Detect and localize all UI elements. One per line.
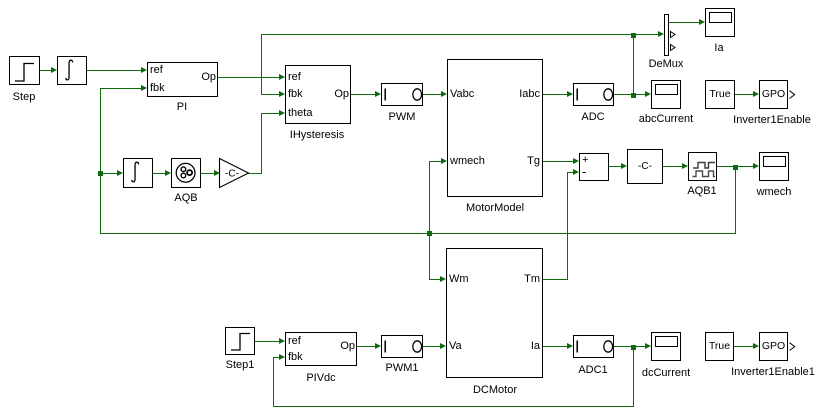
port label ref (PI) <box>150 64 163 77</box>
source block Step1 <box>225 327 255 355</box>
wire IHysteresis Op to PWM <box>351 94 376 95</box>
label wmech <box>757 186 792 199</box>
wire arrowhead into AQB <box>165 170 171 176</box>
wire arrowhead into PI ref <box>141 67 147 73</box>
driver block GPO1 <box>759 332 788 361</box>
wire arrowhead into Integrator1 <box>117 170 123 176</box>
wire speed feedback vertical x=100 <box>100 88 101 234</box>
driver block AQB1 <box>688 152 717 181</box>
wire Gain to theta corner <box>248 173 262 174</box>
port label Vabc (MotorModel) <box>450 88 474 101</box>
wire wmech to DCMotor Wm <box>429 279 441 280</box>
port label wmech (MotorModel) <box>450 155 485 168</box>
wire arrowhead into PWM1 <box>375 343 381 349</box>
sensor block AQB <box>171 158 201 188</box>
GPO output port chevron <box>789 90 796 100</box>
driver block PWM <box>381 83 423 106</box>
wire dc feedback rail y=406 <box>273 406 634 407</box>
wire arrowhead into AQB1 <box>682 163 688 169</box>
wire Integrator to PI ref <box>87 70 143 71</box>
driver block ADC1 <box>573 335 614 358</box>
port label Iabc (MotorModel) <box>519 88 540 101</box>
GPO1 output port chevron <box>789 342 796 352</box>
port label ref (PIVdc) <box>288 335 301 348</box>
wire arrowhead into dcCurrent <box>645 343 651 349</box>
scope wmech <box>759 152 789 181</box>
wire arrowhead into ADC1 <box>567 343 573 349</box>
port label fbk (IHysteresis) <box>288 88 303 101</box>
wire arrowhead into IHysteresis theta <box>279 110 285 116</box>
DeMux unconnected output port 3 <box>670 44 676 51</box>
wire AQB to Gain <box>201 173 215 174</box>
wire DCMotor Ia to ADC1 <box>543 346 568 347</box>
wire top current rail y=34 <box>261 34 633 35</box>
wire dc feedback vertical x=633 <box>633 346 634 407</box>
label PWM <box>389 111 416 124</box>
wire arrowhead into abcCurrent <box>645 91 651 97</box>
wire ADC to abcCurrent scope <box>614 94 646 95</box>
label PWM1 <box>386 362 419 375</box>
sum block <box>579 153 609 181</box>
junction ADC output tap <box>631 93 636 98</box>
label AQB <box>174 192 197 205</box>
integrator block (Step path) <box>57 56 87 85</box>
source block Step <box>9 56 40 85</box>
wire Tm into Sum minus <box>567 172 574 173</box>
constant -C- <box>627 149 663 184</box>
wire speed feedback into PI fbk <box>100 88 143 89</box>
wire arrowhead into MotorModel wmech <box>441 158 447 164</box>
wire wmech vertical x=735 <box>735 166 736 234</box>
label ADC <box>581 111 604 124</box>
label dcCurrent <box>642 367 690 380</box>
wire Constant to AQB1 <box>663 166 683 167</box>
label AQB1 <box>687 185 716 198</box>
wire MotorModel Iabc to ADC <box>543 94 568 95</box>
port label Va (DCMotor) <box>449 340 462 353</box>
port label fbk (PIVdc) <box>288 351 303 364</box>
port label Wm (DCMotor) <box>449 273 469 286</box>
driver block ADC <box>573 83 614 106</box>
scope dcCurrent <box>651 332 681 361</box>
wire arrowhead into Integrator <box>51 67 57 73</box>
wire Sum to Constant <box>609 166 622 167</box>
wire PIVdc Op to PWM1 <box>357 346 376 347</box>
wire PWM1 to DCMotor Va <box>423 346 441 347</box>
wire arrowhead into DCMotor Wm <box>440 276 446 282</box>
gain -C- (triangle) <box>219 158 251 189</box>
subsystem PI <box>147 62 218 97</box>
port label Op (IHysteresis) <box>334 88 349 101</box>
junction wmech rail cross tap <box>427 231 432 236</box>
label Inverter1Enable <box>733 114 811 127</box>
wire current rail vertical x=633 <box>633 34 634 95</box>
subsystem DCMotor <box>446 248 543 378</box>
subsystem IHysteresis <box>285 65 351 124</box>
label PIVdc <box>306 372 335 385</box>
wire arrowhead into DeMux <box>658 31 664 37</box>
wire PWM to MotorModel Vabc <box>423 94 442 95</box>
wire DeMux out1 to Ia scope <box>669 22 700 23</box>
port label Op (PI) <box>201 71 216 84</box>
wire tap to Integrator1 <box>100 173 118 174</box>
label PI <box>177 101 187 114</box>
wire dc feedback vertical x=273 <box>273 357 274 407</box>
port label fbk (PI) <box>150 82 165 95</box>
junction AQB1 output tap <box>733 165 738 170</box>
wire dc feedback into PIVdc fbk <box>273 357 280 358</box>
wire arrowhead into Gain <box>214 170 220 176</box>
port label ref (IHysteresis) <box>288 71 301 84</box>
wire arrowhead into PIVdc fbk <box>279 354 285 360</box>
wire wmech rail tap to MotorModel <box>429 161 442 162</box>
wire MotorModel Tg to Sum plus <box>543 161 574 162</box>
demux DeMux <box>664 14 669 56</box>
wire Tm vertical x=567 <box>567 172 568 280</box>
label ADC1 <box>578 364 607 377</box>
label DCMotor <box>473 384 517 397</box>
DeMux unconnected output port 2 <box>670 31 676 38</box>
wire theta into IHysteresis <box>261 113 280 114</box>
wire arrowhead into wmech scope <box>753 163 759 169</box>
wire arrowhead into GPO1 <box>753 343 759 349</box>
constant True <box>705 80 735 109</box>
wire Step1 to PIVdc ref <box>255 341 280 342</box>
wire arrowhead into Sum minus <box>573 169 579 175</box>
wire DCMotor Tm out <box>543 279 568 280</box>
wire PI Op to IHysteresis ref <box>218 77 281 78</box>
wire arrowhead into Sum plus <box>573 158 579 164</box>
port label Ia (DCMotor) <box>531 340 540 353</box>
constant True1 <box>705 332 734 361</box>
wire AQB1 to wmech scope <box>717 166 754 167</box>
label Step <box>13 91 36 104</box>
wire wmech vertical x=429 <box>429 161 430 280</box>
wire arrowhead into MotorModel Vabc <box>441 91 447 97</box>
label IHysteresis <box>290 129 344 142</box>
label Inverter1Enable1 <box>731 366 815 379</box>
junction speed feedback tap to Integrator1 <box>98 171 103 176</box>
wire arrowhead into PIVdc ref <box>279 338 285 344</box>
label Step1 <box>226 359 255 372</box>
wire arrowhead into IHysteresis ref <box>279 74 285 80</box>
wire arrowhead into PWM <box>375 91 381 97</box>
wire arrowhead into GPO <box>753 91 759 97</box>
wire arrowhead into PI fbk <box>141 85 147 91</box>
scope abcCurrent <box>651 80 681 109</box>
port label Op (PIVdc) <box>340 340 355 353</box>
port label theta (IHysteresis) <box>288 107 312 120</box>
wire True1 to GPO1 <box>734 346 754 347</box>
wire arrowhead into DCMotor Va <box>440 343 446 349</box>
label MotorModel <box>466 202 524 215</box>
wire current feedback vertical x=261 <box>261 34 262 95</box>
wire Integrator1 to AQB <box>153 173 166 174</box>
driver block GPO <box>759 80 788 109</box>
junction current rail tap to DeMux <box>631 33 636 38</box>
label abcCurrent <box>639 113 693 126</box>
wire arrowhead into ADC <box>567 91 573 97</box>
subsystem PIVdc <box>285 332 357 366</box>
wire arrowhead into IHysteresis fbk <box>279 91 285 97</box>
wire arrowhead into Constant <box>621 163 627 169</box>
wire Step to Integrator <box>40 70 53 71</box>
wire ADC1 to dcCurrent scope <box>614 346 646 347</box>
wire speed feedback rail y=233 <box>100 233 736 234</box>
svg-text:-C-: -C- <box>225 169 239 180</box>
wire arrowhead into Ia scope <box>699 19 705 25</box>
subsystem MotorModel <box>447 59 543 197</box>
driver block PWM1 <box>381 335 423 358</box>
port label Tm (DCMotor) <box>524 273 540 286</box>
wire True to GPO <box>735 94 754 95</box>
scope Ia <box>705 8 735 37</box>
wire theta vertical x=261 <box>261 113 262 174</box>
label Ia <box>714 42 723 55</box>
junction ADC1 output tap <box>631 345 636 350</box>
port label Tg (MotorModel) <box>527 155 540 168</box>
label DeMux <box>649 58 684 71</box>
integrator block (AQB path) <box>123 158 153 188</box>
wire current feedback into IHysteresis fbk <box>261 94 280 95</box>
wire rail to DeMux <box>633 34 661 35</box>
